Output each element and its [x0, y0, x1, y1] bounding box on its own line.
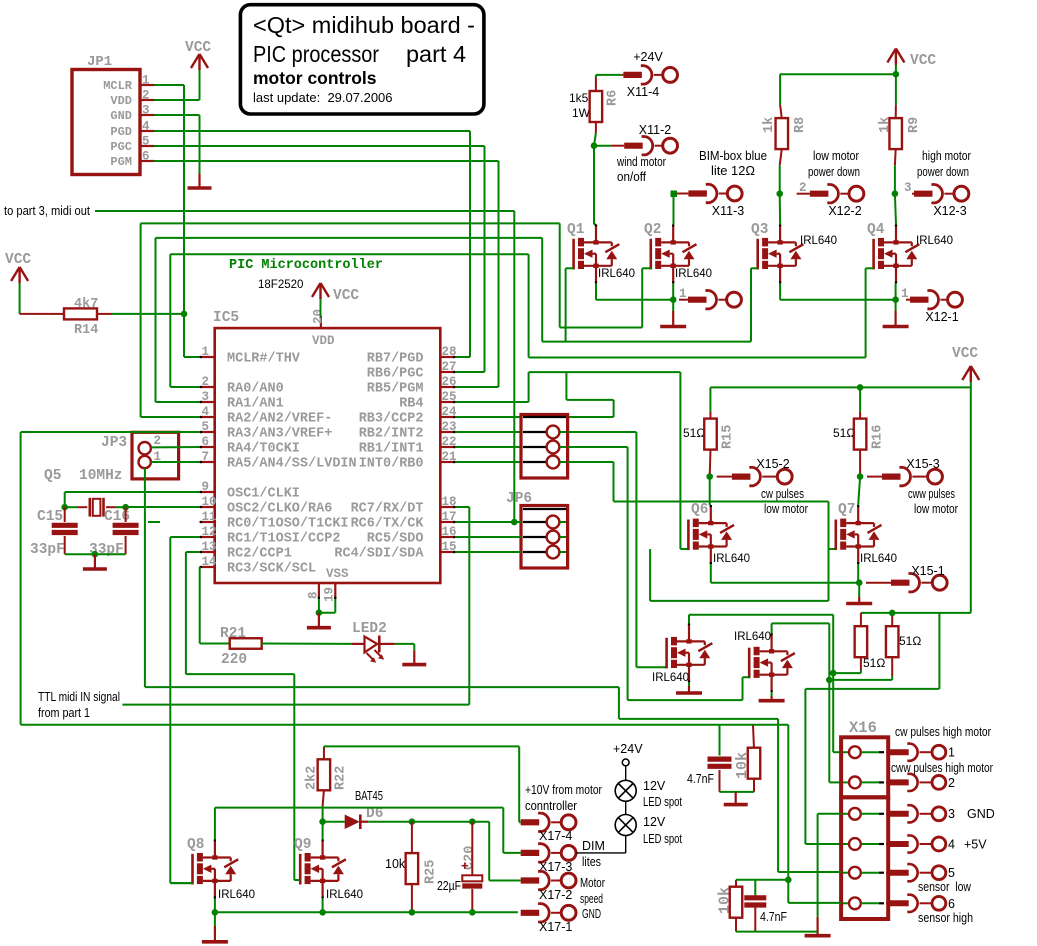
svg-text:51Ω: 51Ω: [833, 426, 855, 440]
ground X16.3: [805, 917, 831, 936]
wire Q2 gnd: [672, 300, 674, 311]
svg-text:4: 4: [948, 838, 955, 852]
svg-text:IRL640: IRL640: [675, 268, 712, 280]
svg-text:PIC processor: PIC processor: [253, 41, 379, 67]
wire lamp to DIM: [576, 836, 626, 853]
svg-text:speed: speed: [580, 892, 603, 906]
svg-text:6: 6: [202, 435, 210, 449]
svg-text:1k5: 1k5: [569, 91, 589, 105]
wire 51b bottom: [829, 676, 892, 680]
svg-text:2: 2: [154, 434, 162, 448]
wire JP1.3 GND: [154, 115, 200, 174]
svg-text:IRL640: IRL640: [734, 631, 771, 643]
svg-text:51Ω: 51Ω: [683, 426, 705, 440]
svg-text:power down: power down: [917, 165, 969, 179]
wire Q4 gate: [866, 267, 874, 269]
wire RB6 PGC: [455, 371, 484, 373]
wire Q1 gate: [566, 267, 574, 269]
connector X11-1 pad: [679, 287, 741, 309]
svg-text:cw pulses high motor: cw pulses high motor: [895, 725, 991, 739]
svg-text:VDD: VDD: [110, 94, 132, 108]
wire Q1 Q2 sources: [596, 283, 673, 299]
connector X16: [841, 719, 946, 919]
connector X11-2: [611, 123, 678, 184]
wire RC3 to R21: [200, 567, 230, 644]
capacitor C15 33pF: [30, 507, 78, 558]
junction 51b top: [889, 610, 896, 617]
wire X12-3 to Q4 drain: [895, 194, 896, 225]
transistor Q6 IRL640: [688, 502, 750, 565]
junction X15-3: [857, 473, 864, 480]
connector X12-1 pad: [901, 287, 962, 324]
svg-text:cw pulses: cw pulses: [761, 487, 804, 501]
svg-text:Q4: Q4: [867, 222, 885, 238]
svg-text:11: 11: [202, 510, 217, 524]
connector X17-1: [521, 904, 601, 934]
svg-text:conntroller: conntroller: [525, 799, 577, 813]
svg-text:VDD: VDD: [312, 334, 335, 348]
svg-text:25: 25: [442, 390, 457, 404]
svg-text:4k7: 4k7: [74, 297, 98, 312]
svg-text:6: 6: [948, 897, 955, 911]
ground JP1: [188, 174, 212, 188]
svg-text:OSC2/CLKO/RA6: OSC2/CLKO/RA6: [227, 502, 332, 517]
svg-text:RB3/CCP2: RB3/CCP2: [359, 412, 424, 427]
svg-text:RC6/TX/CK: RC6/TX/CK: [351, 517, 425, 532]
junction square X11-3: [671, 191, 678, 198]
svg-text:BAT45: BAT45: [355, 789, 383, 803]
wire R6 top: [596, 75, 622, 78]
junction X15-2: [706, 473, 713, 480]
ground Q8 rail: [202, 926, 228, 942]
transistor Q1 IRL640: [567, 222, 635, 283]
svg-text:IRL640: IRL640: [326, 889, 363, 901]
transistor Q2 IRL640: [644, 222, 712, 283]
svg-text:X17-1: X17-1: [539, 920, 572, 934]
LED LED2: [351, 621, 395, 663]
connector X11-4: [622, 50, 678, 99]
svg-text:3: 3: [142, 104, 150, 118]
connector X17-3: [521, 839, 605, 874]
diode D6 BAT45: [323, 789, 384, 829]
junction R25 bottom: [409, 909, 416, 916]
svg-text:Motor: Motor: [580, 876, 605, 890]
svg-text:Q1: Q1: [567, 222, 585, 238]
ground QA: [676, 686, 702, 693]
vcc symbol PIC VDD: [312, 283, 359, 304]
svg-text:33pF: 33pF: [30, 542, 65, 558]
svg-text:2: 2: [142, 89, 150, 103]
wire Q9 drain: [322, 822, 324, 840]
svg-text:RC4/SDI/SDA: RC4/SDI/SDA: [334, 547, 424, 562]
svg-text:GND: GND: [110, 109, 132, 123]
wire RB7 PGD: [455, 356, 470, 358]
IC U IC5 PIC18F2520: [200, 258, 457, 602]
svg-text:Q9: Q9: [294, 837, 311, 853]
svg-text:+24V: +24V: [613, 742, 643, 756]
wire C15 C16 gnd: [65, 553, 126, 555]
svg-text:6: 6: [142, 150, 150, 164]
connector X15-1: [866, 564, 947, 592]
svg-text:R8: R8: [793, 117, 808, 133]
wire X16.3 gnd: [818, 814, 841, 917]
resistor 51a: [855, 613, 886, 670]
svg-text:<Qt> midihub board -: <Qt> midihub board -: [253, 12, 475, 38]
svg-text:OSC1/CLKI: OSC1/CLKI: [227, 487, 300, 502]
svg-text:8: 8: [307, 591, 321, 599]
wire JP1.1 MCLR: [154, 85, 200, 357]
wire Q9 gate link: [294, 879, 300, 881]
svg-text:GND: GND: [582, 907, 601, 921]
svg-text:sensor high: sensor high: [918, 911, 973, 925]
wire Q7 gnd: [858, 583, 860, 597]
wire Q8 gate link: [170, 882, 192, 884]
wire RC5 to JP6: [455, 536, 521, 538]
wire RC6 to JP6: [455, 521, 521, 523]
svg-text:IRL640: IRL640: [218, 889, 255, 901]
connector X12-3: [904, 181, 969, 218]
svg-text:X11-4: X11-4: [627, 85, 659, 99]
wire RC4 to JP6: [455, 551, 521, 553]
wire Q7 gate link: [829, 548, 836, 550]
svg-text:cww pulses high motor: cww pulses high motor: [891, 761, 993, 775]
ground Q6Q7: [846, 597, 872, 604]
svg-text:220: 220: [221, 652, 247, 668]
svg-text:+24V: +24V: [633, 50, 663, 64]
svg-text:motor controls: motor controls: [253, 68, 377, 88]
label high motor power down: [917, 149, 971, 179]
svg-text:JP3: JP3: [101, 435, 127, 451]
connector X17-2: [521, 871, 605, 906]
wire RB1 to JP5.3: [455, 446, 521, 448]
junction crystal gnd: [92, 551, 99, 558]
svg-text:wind motor: wind motor: [616, 155, 666, 169]
svg-text:X12-3: X12-3: [933, 204, 966, 218]
resistor 51b: [886, 613, 921, 676]
wire X15-2 to Q6: [710, 477, 711, 506]
svg-text:X15-3: X15-3: [906, 457, 939, 471]
svg-text:VSS: VSS: [326, 567, 349, 581]
svg-text:+5V: +5V: [964, 838, 987, 852]
svg-text:RC3/SCK/SCL: RC3/SCK/SCL: [227, 562, 316, 577]
svg-text:LED2: LED2: [352, 621, 387, 637]
svg-text:on/off: on/off: [617, 170, 646, 184]
junction D6 anode: [319, 818, 326, 825]
svg-text:10MHz: 10MHz: [79, 468, 123, 484]
svg-text:21: 21: [442, 450, 457, 464]
capacitor 4.7nF set2: [744, 880, 787, 932]
svg-text:9: 9: [202, 480, 210, 494]
svg-text:low motor: low motor: [813, 149, 859, 163]
svg-text:RB6/PGC: RB6/PGC: [367, 367, 424, 382]
wire JP5.2 to QA gate: [568, 432, 667, 667]
svg-text:Q7: Q7: [838, 502, 855, 518]
resistor 10k set2: [717, 880, 743, 932]
wire DIM line to X17-2: [489, 822, 521, 881]
svg-text:VCC: VCC: [5, 252, 31, 268]
resistor R6 1k5 1W: [569, 78, 621, 134]
connector JP5: [521, 415, 568, 479]
svg-text:3: 3: [202, 390, 210, 404]
label to part 3 midi out: [4, 204, 90, 218]
svg-text:IRL640: IRL640: [860, 553, 897, 565]
svg-text:14: 14: [202, 555, 218, 569]
svg-text:part 4: part 4: [406, 41, 466, 67]
svg-text:18F2520: 18F2520: [258, 279, 303, 291]
svg-text:R15: R15: [721, 425, 736, 449]
svg-text:BIM-box blue: BIM-box blue: [699, 149, 767, 163]
wire D6 to R25 C20: [368, 821, 489, 823]
wire lamp mid: [625, 801, 627, 814]
svg-text:R16: R16: [871, 425, 886, 449]
svg-text:X11-3: X11-3: [712, 204, 744, 218]
ground crystal: [83, 554, 107, 569]
svg-text:TTL midi IN signal: TTL midi IN signal: [38, 690, 120, 704]
svg-text:5: 5: [948, 866, 955, 880]
svg-text:IRL640: IRL640: [916, 235, 953, 247]
connector JP3: [101, 432, 179, 479]
svg-text:RC7/RX/DT: RC7/RX/DT: [351, 502, 424, 517]
svg-text:RA1/AN1: RA1/AN1: [227, 397, 284, 412]
wire QA source gnd: [688, 682, 690, 686]
wire VCC jog to X16.4: [805, 613, 939, 844]
svg-text:cww pulses: cww pulses: [908, 487, 955, 501]
svg-text:lite 12Ω: lite 12Ω: [711, 164, 755, 178]
svg-text:R9: R9: [907, 117, 922, 133]
resistor R25 10k: [385, 822, 439, 913]
lamp 12V LED spot 2: [615, 815, 682, 847]
resistor R15 51: [683, 412, 736, 477]
transistor QB IRL640: [734, 631, 795, 692]
wire RB5 PGM: [455, 386, 498, 388]
svg-text:RB5/PGM: RB5/PGM: [367, 382, 424, 397]
vcc symbol right mid: [952, 346, 979, 382]
wire VCC to R14: [20, 283, 49, 314]
svg-text:17: 17: [442, 510, 457, 524]
svg-text:51Ω: 51Ω: [899, 634, 921, 648]
wire RB2 to JP5.2: [455, 431, 521, 433]
wire R6 bottom: [594, 133, 611, 146]
svg-text:GND: GND: [967, 807, 995, 821]
wire lamp top: [625, 766, 627, 781]
ground LED2: [402, 650, 426, 664]
svg-text:RB2/INT2: RB2/INT2: [359, 427, 424, 442]
svg-text:1W: 1W: [572, 106, 591, 120]
svg-text:Q8: Q8: [187, 837, 204, 853]
wire R14 to MCLR node: [112, 313, 184, 315]
svg-text:high motor: high motor: [922, 149, 971, 163]
svg-text:3: 3: [948, 807, 955, 821]
svg-text:IC5: IC5: [213, 310, 239, 326]
svg-text:lites: lites: [582, 855, 601, 869]
resistor R21 220: [220, 626, 262, 668]
wire QB source gnd: [771, 692, 773, 696]
wire JP5.4 to Q7 gate: [568, 462, 829, 601]
svg-text:1: 1: [948, 746, 955, 760]
wire RB4 branch JP5.1: [566, 372, 613, 417]
svg-text:15: 15: [442, 540, 457, 554]
wire 51a bottom: [833, 670, 861, 673]
svg-text:RA3/AN3/VREF+: RA3/AN3/VREF+: [227, 427, 332, 442]
svg-text:22µF: 22µF: [437, 879, 461, 893]
junction C15 top: [61, 504, 68, 511]
svg-text:power down: power down: [808, 165, 860, 179]
svg-text:RB4: RB4: [399, 397, 423, 412]
connector X12-2: [797, 181, 864, 218]
junction Q9 source: [319, 909, 326, 916]
connector X11-3: [677, 149, 767, 218]
svg-text:IRL640: IRL640: [713, 553, 750, 565]
vcc symbol top right: [887, 49, 936, 70]
label X16 pin names: [891, 725, 995, 925]
svg-text:12V: 12V: [643, 815, 666, 829]
ground PIC VSS: [307, 613, 331, 628]
wire JP3.2 to pin6: [151, 446, 200, 448]
svg-text:18: 18: [442, 495, 457, 509]
wire INT0 to JP5.4: [455, 461, 521, 463]
wire RB4 net: [455, 372, 688, 549]
svg-text:RC1/T1OSI/CCP2: RC1/T1OSI/CCP2: [227, 532, 340, 547]
svg-text:13: 13: [202, 540, 217, 554]
svg-text:+10V from motor: +10V from motor: [525, 783, 602, 797]
junction R25 top: [409, 818, 416, 825]
vcc symbol JP1: [185, 40, 211, 70]
junction C20 bottom: [469, 909, 476, 916]
connector JP1: [72, 54, 154, 175]
svg-text:1: 1: [202, 345, 210, 359]
wire R9 to X12-3: [894, 165, 896, 193]
wire Q9 source: [322, 898, 324, 912]
svg-text:2: 2: [948, 776, 955, 790]
wire VSS pins 8 19: [319, 599, 335, 613]
capacitor C16 33pF: [89, 507, 139, 558]
resistor R16 51: [833, 412, 886, 477]
connector X15-3: [867, 457, 958, 516]
connector X17-4: [521, 783, 602, 843]
wire QB drain to X16.2: [772, 623, 843, 782]
label +24V lamps: [613, 742, 643, 756]
wire VDD pin20: [320, 299, 322, 317]
wire set2 bottom: [736, 931, 818, 933]
junction 51b X16.2: [826, 677, 833, 684]
svg-text:C15: C15: [37, 509, 63, 525]
wire X15-3 to Q7: [858, 477, 860, 506]
wire RA1 net: [156, 238, 752, 402]
resistor 10k set1: [734, 726, 760, 792]
connector X15-2: [717, 457, 808, 516]
svg-text:VCC: VCC: [910, 53, 936, 69]
svg-text:PIC Microcontroller: PIC Microcontroller: [229, 258, 383, 273]
svg-text:PGM: PGM: [110, 155, 132, 169]
svg-text:X15-2: X15-2: [756, 457, 789, 471]
wire JP3.1 down long: [145, 468, 778, 872]
svg-text:20: 20: [312, 309, 326, 324]
svg-text:RC2/CCP1: RC2/CCP1: [227, 547, 292, 562]
svg-text:Q3: Q3: [751, 222, 768, 238]
svg-text:IRL640: IRL640: [598, 268, 635, 280]
svg-text:24: 24: [442, 405, 458, 419]
wire Q3 gate: [751, 267, 758, 269]
svg-text:5: 5: [202, 420, 210, 434]
svg-text:7: 7: [202, 450, 210, 464]
svg-text:LED spot: LED spot: [643, 832, 682, 846]
svg-text:PGD: PGD: [110, 125, 132, 139]
svg-text:RC5/SDO: RC5/SDO: [367, 532, 424, 547]
transistor Q9 IRL640: [294, 837, 363, 901]
wire VCC rail mid: [710, 382, 970, 613]
title box: [240, 5, 484, 114]
wire Q4 gnd: [895, 300, 897, 311]
wire JP1.2 VDD to VCC: [154, 70, 200, 100]
crystal Q5: [78, 498, 115, 517]
label TTL midi IN: [38, 690, 120, 720]
wire X12-2 to Q3 drain: [779, 194, 781, 225]
svg-text:RA0/AN0: RA0/AN0: [227, 382, 284, 397]
wire gnd rail bottom: [215, 898, 518, 926]
wire Q6 Q7 sources: [711, 564, 859, 583]
wire 51ohm rail: [861, 612, 971, 614]
svg-text:DIM: DIM: [582, 839, 605, 853]
wire R8 to X12-2: [779, 165, 781, 193]
svg-text:RB1/INT1: RB1/INT1: [359, 442, 424, 457]
junction X15-1: [856, 579, 863, 586]
svg-text:1: 1: [142, 74, 150, 88]
wire Q3 Q4 sources: [780, 283, 896, 299]
wire RA2 net: [141, 223, 643, 417]
junction Q2 source: [670, 296, 677, 303]
svg-text:from part 1: from part 1: [38, 706, 90, 720]
wire RA3 net: [21, 432, 789, 903]
svg-text:4.7nF: 4.7nF: [760, 910, 787, 924]
transistor Q4 IRL640: [867, 222, 953, 283]
svg-text:R14: R14: [74, 323, 98, 338]
wire pin11 stub: [148, 521, 160, 523]
ground set1: [724, 792, 748, 805]
svg-text:R22: R22: [334, 766, 349, 790]
svg-text:RA2/AN2/VREF-: RA2/AN2/VREF-: [227, 412, 332, 427]
svg-text:22: 22: [442, 435, 457, 449]
svg-text:last update: 29.07.2006: last update: 29.07.2006: [253, 90, 393, 105]
svg-text:Q5: Q5: [44, 468, 61, 484]
svg-text:to part 3, midi out: to part 3, midi out: [4, 204, 90, 218]
svg-text:PGC: PGC: [110, 140, 132, 154]
wire X11-2 to Q1 drain: [594, 146, 596, 225]
svg-text:IRL640: IRL640: [800, 235, 837, 247]
wire Q2 gate: [642, 267, 651, 269]
svg-text:JP1: JP1: [87, 54, 112, 70]
wire set1 bottom: [720, 791, 755, 793]
junction 51a X16.1: [830, 670, 837, 677]
svg-text:10k: 10k: [385, 857, 406, 871]
svg-text:4.7nF: 4.7nF: [687, 772, 714, 786]
transistor Q7 IRL640: [836, 502, 897, 565]
svg-text:JP6: JP6: [506, 491, 532, 507]
wire Q8 drain: [215, 808, 521, 853]
svg-text:RA4/T0CKI: RA4/T0CKI: [227, 442, 300, 457]
wire JP1.4 PGD: [154, 131, 470, 357]
svg-text:X16: X16: [849, 719, 877, 737]
capacitor 4.7nF set1: [687, 726, 732, 792]
wire TTL midi to RC7: [122, 507, 469, 705]
wire midi out: [95, 211, 514, 522]
svg-text:VCC: VCC: [952, 346, 978, 362]
svg-text:28: 28: [442, 345, 457, 359]
svg-text:RC0/T1OSO/T1CKI: RC0/T1OSO/T1CKI: [227, 517, 349, 532]
wire OSC1 pin9: [65, 492, 200, 507]
junction MCLR-R14: [181, 311, 188, 318]
wire X11-3 to Q2 drain: [673, 196, 675, 224]
wire QA drain to X16.1: [689, 615, 843, 753]
